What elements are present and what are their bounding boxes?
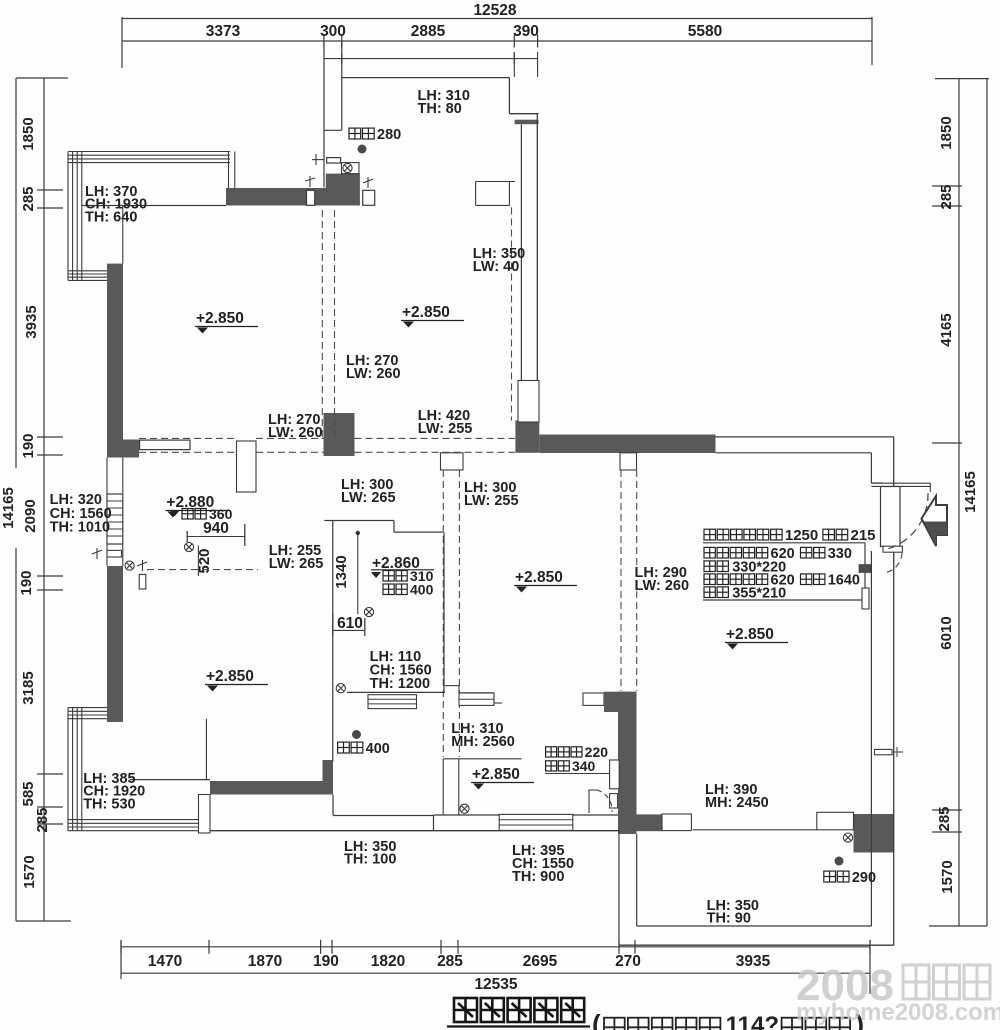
- svg-text:MH: 2450: MH: 2450: [705, 795, 769, 811]
- window b/w bath kitchen: [459, 693, 494, 705]
- svg-text:1850: 1850: [20, 117, 37, 150]
- svg-text:TH: 1010: TH: 1010: [50, 520, 110, 536]
- svg-text:TH: 640: TH: 640: [85, 209, 137, 225]
- row 强电箱离左620 离地1640: [704, 574, 768, 585]
- right wall below door: [870, 551, 872, 926]
- svg-text:1470: 1470: [148, 953, 182, 970]
- svg-text:TH: 900: TH: 900: [512, 869, 564, 885]
- jamb rect corridor a: [441, 453, 464, 470]
- svg-text:12535: 12535: [474, 976, 517, 993]
- svg-text:3373: 3373: [206, 23, 241, 40]
- cased opening B: [518, 381, 539, 423]
- bay window top-left jamb: [228, 152, 230, 189]
- outlet rect top band b: [363, 190, 375, 205]
- bay window bottom-left multi-line: [67, 708, 69, 831]
- opening right of terrace: [817, 812, 854, 830]
- svg-text:TH: 80: TH: 80: [418, 101, 462, 117]
- corridor dashed top b: [256, 437, 324, 439]
- svg-text:940: 940: [203, 520, 229, 537]
- door leaf rect balcony: [327, 158, 341, 163]
- hall center pier: [324, 413, 355, 456]
- entry arrow: [922, 496, 948, 546]
- opening left of dining pier: [583, 693, 604, 705]
- svg-text:LW: 255: LW: 255: [464, 493, 519, 509]
- inner wall face left upper: [122, 206, 124, 264]
- bay window top-left multi-line: [68, 151, 230, 153]
- svg-text:3935: 3935: [736, 953, 771, 970]
- top room outline: [342, 77, 510, 79]
- kitchen south window: [499, 814, 573, 830]
- fixture a dining: [610, 760, 620, 789]
- dot kitchen: [352, 730, 361, 739]
- text 下沉400 hall: [383, 584, 407, 595]
- terrace east wall outer: [536, 114, 538, 421]
- bottom right corner pier: [854, 814, 894, 853]
- dim 520 vertical: [197, 546, 199, 576]
- svg-text:LW: 255: LW: 255: [418, 421, 473, 437]
- light symbol terrace: [843, 833, 852, 842]
- wall pier balcony door: [326, 174, 360, 206]
- top dimension segments line: [122, 40, 872, 42]
- svg-text:285: 285: [437, 953, 463, 970]
- svg-text:400: 400: [410, 582, 434, 598]
- hall dashed vertical b: [442, 470, 444, 757]
- text 下沉400 kitchen: [338, 742, 363, 753]
- dining west wall bar: [618, 692, 637, 834]
- svg-text:TH: 530: TH: 530: [83, 796, 135, 812]
- svg-text:TH: 100: TH: 100: [344, 852, 396, 868]
- dining west wall foot: [637, 814, 663, 831]
- svg-text:300: 300: [320, 23, 346, 40]
- svg-text:290: 290: [852, 870, 876, 886]
- svg-text:400: 400: [366, 741, 390, 757]
- bath west wall: [332, 521, 334, 693]
- svg-text:+2.850: +2.850: [726, 626, 774, 643]
- kitchen west pier vertical: [323, 760, 334, 781]
- wall fixture right: [875, 749, 893, 754]
- right wall: [893, 437, 895, 945]
- corridor dashed top a: [139, 437, 236, 439]
- light symbol left room: [125, 561, 134, 570]
- terrace east wall inner: [520, 124, 522, 420]
- window opening mid-left: [140, 440, 190, 450]
- hall dashed vertical c: [620, 470, 622, 691]
- svg-text:285: 285: [20, 186, 37, 211]
- svg-text:(: (: [592, 1009, 601, 1030]
- svg-text:285: 285: [34, 807, 51, 832]
- light symbol bath: [336, 684, 345, 693]
- svg-text:+2.850: +2.850: [472, 766, 520, 783]
- svg-text:LW: 265: LW: 265: [341, 490, 396, 506]
- svg-text:1870: 1870: [248, 953, 282, 970]
- svg-text:270: 270: [615, 953, 641, 970]
- kitchen door jambs: [443, 758, 521, 760]
- text 下沉290 terrace: [824, 871, 849, 882]
- svg-text:+2.850: +2.850: [515, 569, 563, 586]
- dining west pier top: [604, 692, 637, 712]
- svg-text:14165: 14165: [962, 471, 979, 513]
- svg-text:2695: 2695: [523, 953, 558, 970]
- hall dashed vertical a: [321, 210, 323, 437]
- wall top band left of balcony door: [226, 188, 326, 206]
- terrace notch: [476, 181, 515, 183]
- window sill line top-left: [82, 205, 226, 207]
- corridor dashed top c: [355, 437, 516, 439]
- svg-text:1250: 1250: [785, 527, 818, 544]
- text 下沉360 center: [170, 510, 180, 516]
- left wall gap edge a: [106, 458, 108, 495]
- outlet rect top band a: [307, 190, 315, 205]
- entry door frame: [881, 487, 901, 547]
- svg-text:355*210: 355*210: [732, 586, 786, 602]
- fixture b dining: [610, 794, 618, 808]
- text 下沉280 balcony: [349, 128, 374, 139]
- door swing small dining: [589, 790, 612, 813]
- svg-text:TH: 1200: TH: 1200: [370, 676, 430, 692]
- pier right of terrace wall: [515, 421, 539, 453]
- light symbol 520: [184, 542, 193, 551]
- text 离右边220 dining: [546, 747, 582, 757]
- svg-text:+2.850: +2.850: [402, 304, 450, 321]
- svg-text:MH: 2560: MH: 2560: [451, 734, 515, 750]
- terrace inner dashed: [511, 208, 513, 421]
- opening left of terrace: [662, 814, 691, 831]
- svg-text:190: 190: [20, 433, 37, 458]
- switch mark left wall: [92, 548, 102, 559]
- svg-text:610: 610: [337, 615, 363, 632]
- svg-text:3935: 3935: [23, 305, 40, 338]
- cased opening A: [237, 441, 257, 492]
- right inner dim line: [958, 79, 960, 926]
- svg-text:330: 330: [828, 546, 852, 562]
- svg-text:12528: 12528: [473, 2, 516, 19]
- svg-text:5580: 5580: [688, 23, 722, 40]
- svg-text:285: 285: [936, 806, 953, 831]
- svg-text:1640: 1640: [828, 573, 860, 589]
- svg-text:3185: 3185: [20, 671, 37, 704]
- svg-text:190: 190: [18, 570, 35, 595]
- kitchen south inner line: [333, 815, 434, 817]
- svg-text:285: 285: [938, 184, 955, 209]
- row 强电箱离左620 离地330: [704, 547, 768, 558]
- annotation bracket lines: [703, 542, 865, 544]
- left inner dim line: [43, 78, 45, 921]
- kitchen west wall lower: [332, 795, 334, 816]
- svg-text:585: 585: [20, 781, 37, 806]
- svg-text:2885: 2885: [411, 23, 446, 40]
- text 下沉310 hall: [371, 572, 381, 578]
- svg-text:LW: 260: LW: 260: [635, 578, 690, 594]
- bedroom south wall dark: [210, 781, 333, 795]
- svg-text:4165: 4165: [938, 313, 955, 346]
- top dimension tier 3: [324, 58, 538, 60]
- svg-text:280: 280: [377, 127, 401, 143]
- left wall gap edge b: [106, 544, 108, 566]
- bath south wall: [347, 691, 445, 693]
- bath window: [368, 695, 417, 709]
- svg-text:LW: 260: LW: 260: [346, 366, 401, 382]
- svg-text:myhome2008.com: myhome2008.com: [796, 999, 1000, 1026]
- svg-text:390: 390: [513, 23, 539, 40]
- left wall upper dark: [107, 264, 123, 458]
- dim 1340 vertical: [357, 532, 359, 614]
- svg-text:2090: 2090: [22, 499, 39, 532]
- left outer dim line 14165: [15, 78, 17, 468]
- light symbol kitchen door: [460, 804, 469, 813]
- right outer dim line 14165: [986, 79, 988, 926]
- svg-text:190: 190: [313, 953, 339, 970]
- svg-text:1820: 1820: [371, 953, 405, 970]
- row 尺寸330*220: [704, 561, 728, 572]
- intercom annotation block 可视电话离地1250 离左215: [704, 529, 782, 540]
- left wall lower dark: [107, 566, 123, 722]
- equipment box balcony: [342, 163, 360, 174]
- bath east wall: [443, 532, 445, 693]
- jamb rect corridor b: [620, 453, 637, 470]
- svg-text:14165: 14165: [0, 487, 17, 529]
- bedroom inner line: [205, 719, 207, 780]
- svg-text:340: 340: [572, 758, 596, 774]
- bay jamb bottom-left: [199, 795, 211, 834]
- top wall thin part to right corner: [716, 436, 894, 438]
- bottom dimension total line 12535: [121, 972, 870, 974]
- terrace bottom-right outline: [637, 925, 872, 927]
- kitchen south outer line: [210, 830, 618, 832]
- light symbol balcony: [343, 163, 352, 172]
- small rect below window: [107, 550, 122, 557]
- bedroom sill line: [130, 779, 210, 781]
- dot balcony: [358, 145, 367, 154]
- svg-text:LW: 40: LW: 40: [473, 259, 519, 275]
- intercom wall fixture: [859, 565, 870, 573]
- title 原始结构图: [454, 998, 584, 1022]
- svg-text:1570: 1570: [21, 855, 38, 888]
- svg-text:215: 215: [850, 527, 875, 544]
- svg-text:114?: 114?: [726, 1012, 779, 1030]
- bottom dimension segments line: [121, 946, 870, 948]
- svg-text:+2.850: +2.850: [206, 668, 254, 685]
- balcony pier lines x324/x342: [323, 41, 325, 188]
- row 尺寸355*210: [704, 587, 728, 598]
- svg-text:1850: 1850: [938, 116, 955, 149]
- dot terrace: [835, 857, 844, 866]
- kitchen west wall upper: [332, 692, 334, 762]
- wall stub top room: [515, 120, 539, 125]
- svg-text:+2.850: +2.850: [196, 310, 244, 327]
- dashed line center room: [147, 569, 258, 571]
- outlet rect left room: [139, 574, 146, 589]
- svg-text:360: 360: [209, 506, 233, 522]
- wall stub left mid: [107, 440, 139, 458]
- text 离地340 dining: [546, 761, 570, 771]
- light symbol 610: [364, 607, 373, 616]
- hall step line: [324, 520, 394, 522]
- switch marks top band: [305, 154, 373, 188]
- svg-text:1340: 1340: [333, 555, 350, 588]
- top wall of dining: [539, 435, 715, 454]
- svg-text:6010: 6010: [938, 616, 955, 649]
- svg-text:1570: 1570: [939, 860, 956, 893]
- svg-text:LW: 260: LW: 260: [268, 425, 323, 441]
- entry door header lines: [871, 482, 930, 484]
- svg-text:TH: 90: TH: 90: [707, 911, 751, 927]
- left wall window hatch: [107, 494, 123, 544]
- svg-text:LW: 265: LW: 265: [269, 556, 324, 572]
- bath step east: [445, 685, 459, 687]
- entry door swing dashed arc: [884, 493, 928, 550]
